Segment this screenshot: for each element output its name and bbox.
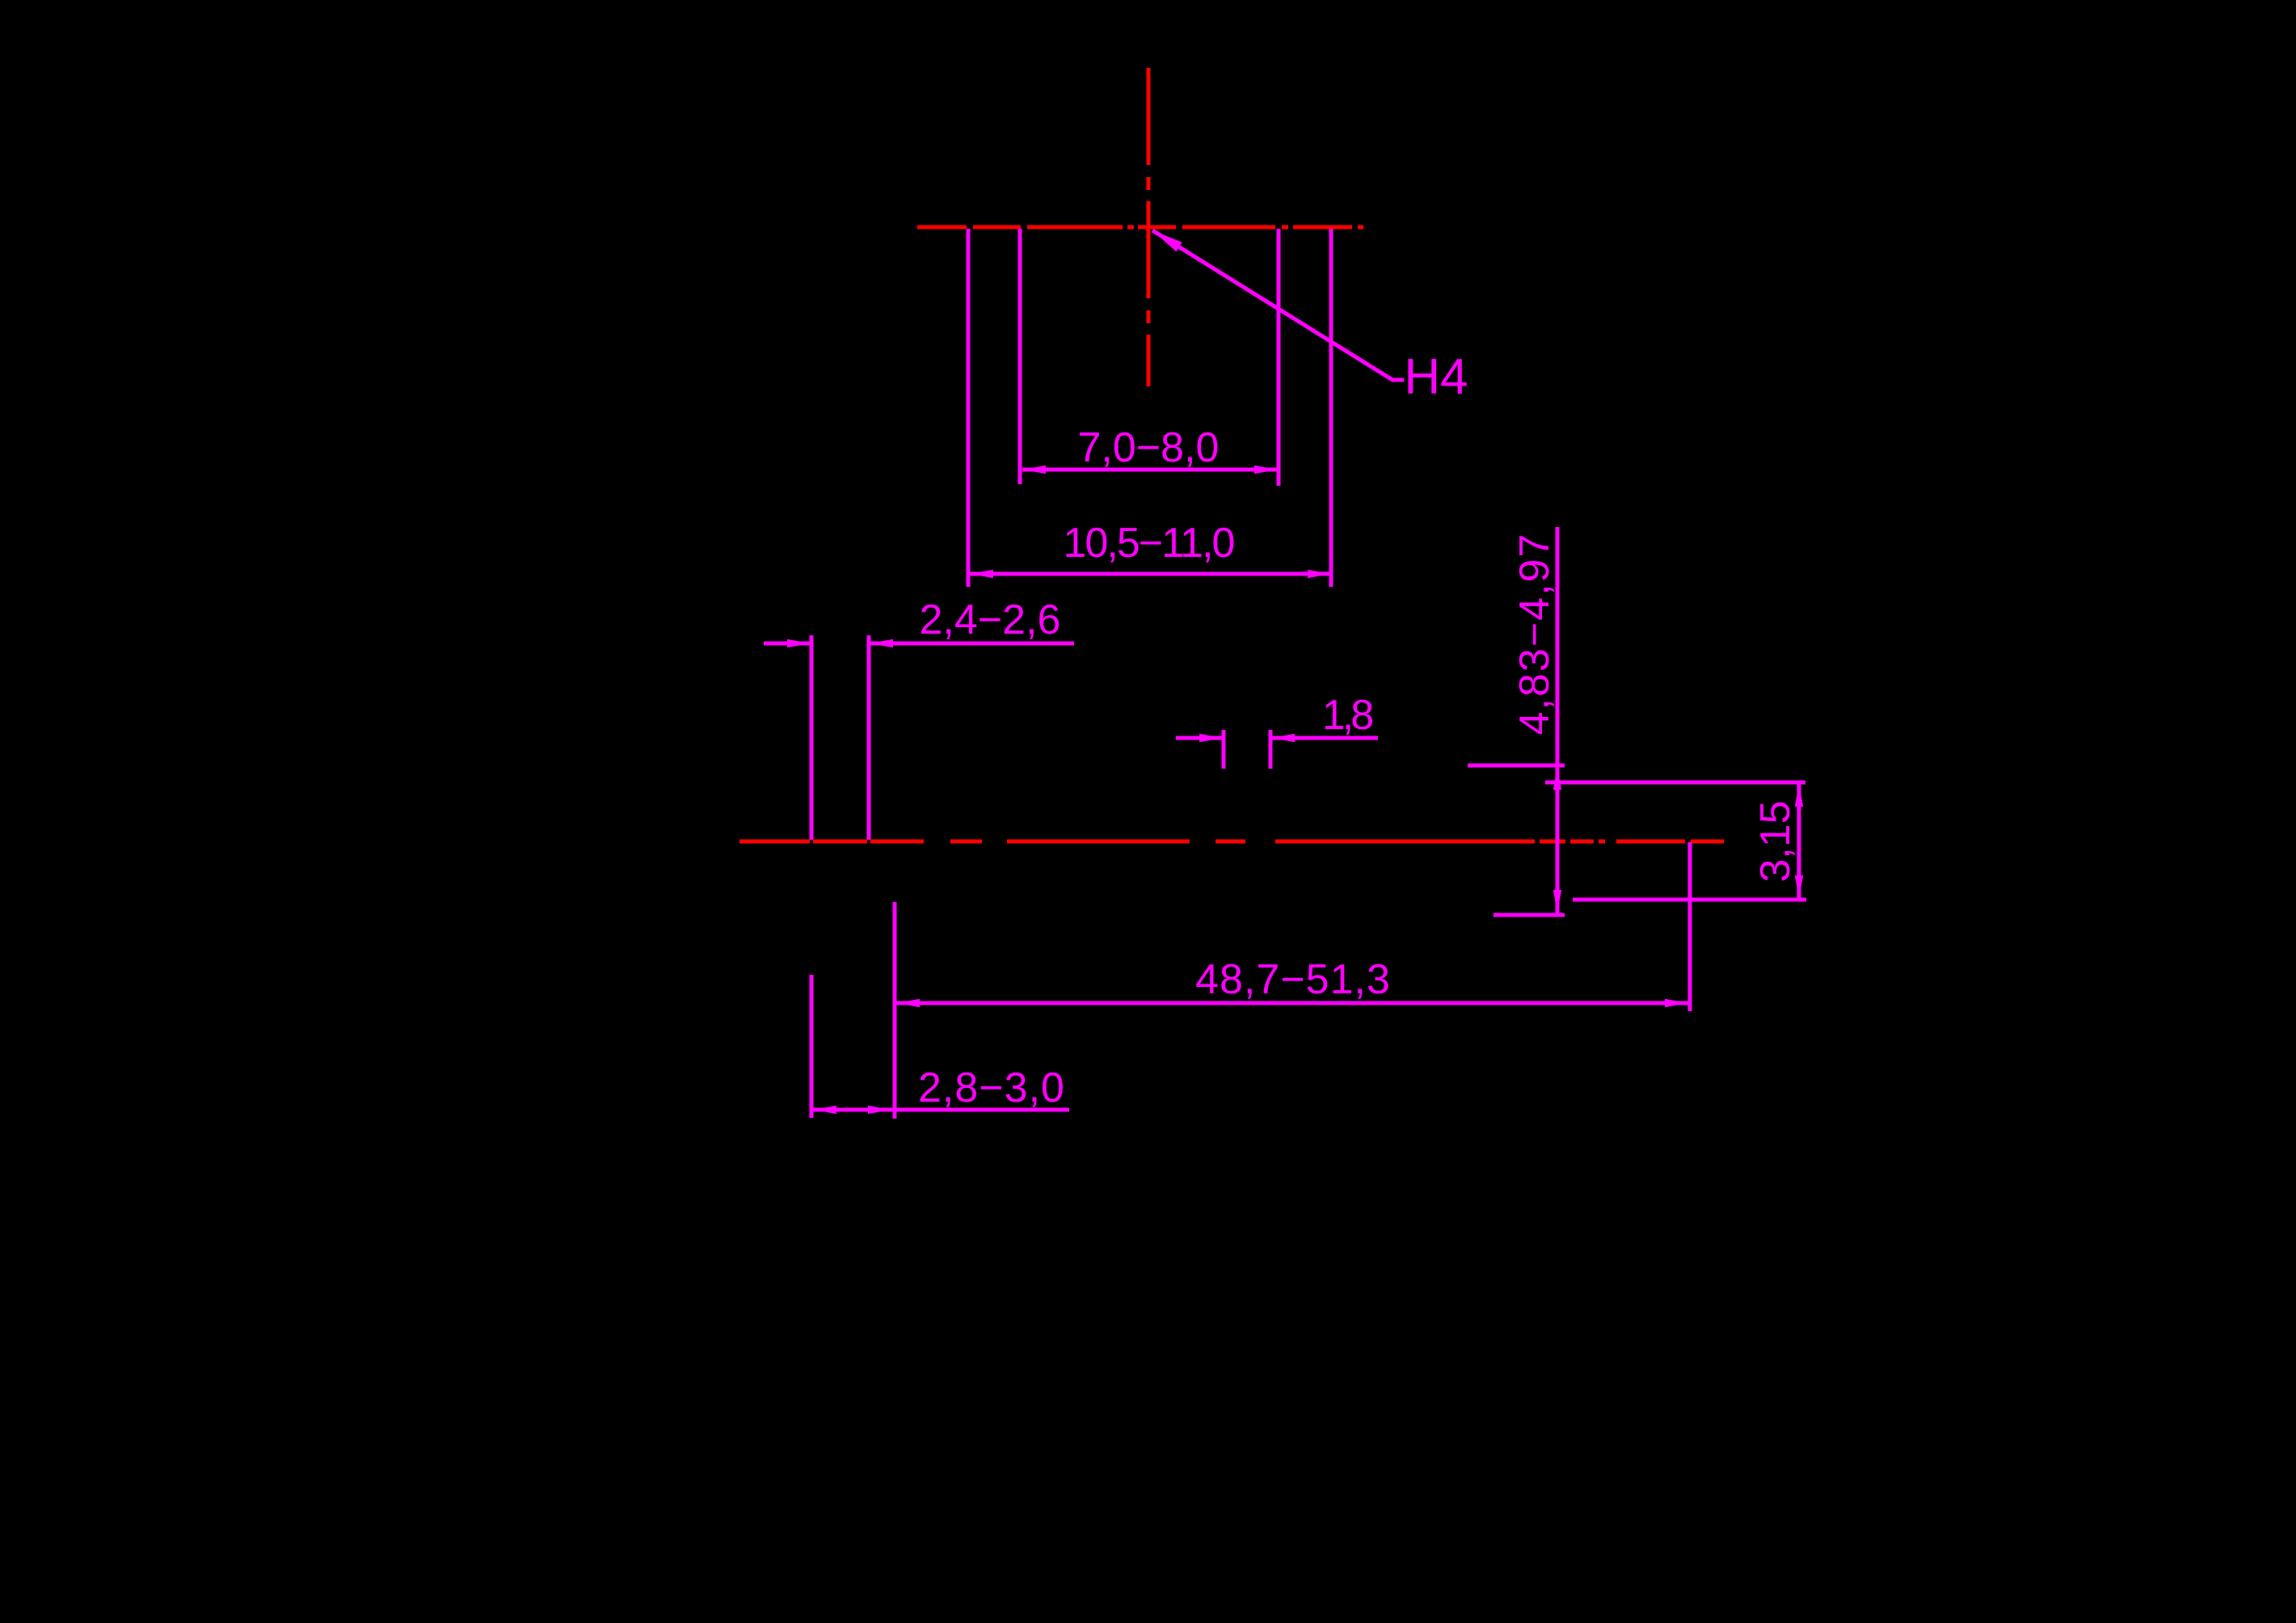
svg-text:10,5−11,0: 10,5−11,0 — [1064, 520, 1234, 567]
svg-text:48,7−51,3: 48,7−51,3 — [1195, 956, 1391, 1003]
svg-text:4,83−4,97: 4,83−4,97 — [1511, 533, 1558, 736]
svg-text:3,15: 3,15 — [1752, 800, 1799, 882]
svg-text:1,8: 1,8 — [1322, 692, 1372, 739]
svg-text:2,4−2,6: 2,4−2,6 — [920, 597, 1061, 643]
svg-text:7,0−8,0: 7,0−8,0 — [1078, 424, 1220, 471]
svg-text:H4: H4 — [1404, 349, 1468, 405]
svg-text:2,8−3,0: 2,8−3,0 — [918, 1064, 1065, 1111]
